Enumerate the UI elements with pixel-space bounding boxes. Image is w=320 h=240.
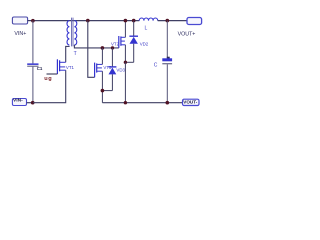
wire bottom-left rail to VT1 source (33, 70, 66, 103)
wire top-left to transformer (33, 20, 140, 22)
port VIN- (12, 99, 31, 106)
diode VD3 (108, 48, 116, 91)
wire inductor to VOUT+ (158, 20, 187, 22)
capacitor C2 polarity mark (167, 57, 170, 60)
svg-text:T: T (74, 51, 77, 57)
capacitor C1 (27, 63, 38, 102)
port VOUT+ (187, 18, 202, 25)
wire bottom-right rail (102, 102, 182, 104)
wire VD2 anode to VT2 source (125, 61, 133, 63)
svg-text:ug: ug (44, 76, 52, 82)
junction dot (166, 101, 170, 105)
mosfet VT2 (119, 21, 126, 63)
wire VT1 gate lead (47, 73, 58, 75)
diode VD2 (129, 21, 138, 63)
inductor L (139, 18, 157, 21)
transformer T primary winding (67, 21, 69, 45)
wire primary bottom to VT1 drain (66, 46, 70, 62)
wire VT3 gate drive (88, 21, 95, 78)
svg-text:VT2: VT2 (111, 42, 120, 47)
mosfet VT1 (57, 59, 65, 74)
wire secondary bottom to VT2 gate (74, 45, 118, 48)
svg-text:C1: C1 (37, 66, 43, 71)
svg-text:VT1: VT1 (66, 65, 75, 70)
port VOUT- (183, 99, 200, 105)
port VIN+ (12, 17, 32, 24)
junction dot (31, 101, 35, 105)
mosfet VT3 (95, 48, 103, 103)
transformer T secondary winding (74, 21, 76, 45)
junction dot (124, 19, 128, 23)
svg-text:C: C (154, 62, 158, 68)
wire down to C2 (166, 21, 168, 59)
svg-text:VOUT+: VOUT+ (178, 32, 196, 38)
svg-text:VOUT-: VOUT- (183, 99, 198, 104)
svg-text:VIN-: VIN- (13, 97, 23, 103)
junction dot (101, 46, 105, 50)
junction dot node A (86, 19, 90, 23)
junction dot (124, 61, 127, 64)
capacitor C2 (162, 58, 172, 102)
junction dot (132, 19, 136, 23)
wire down to C1 (32, 21, 34, 64)
wire VD3 anode to VT3 source (102, 90, 112, 92)
junction dot (124, 101, 127, 104)
junction dot (111, 46, 114, 49)
transformer core (72, 18, 74, 47)
wire VT2 source down to rail (124, 62, 126, 102)
junction dot (31, 19, 35, 23)
junction dot (166, 19, 170, 23)
svg-text:L: L (145, 25, 148, 31)
svg-text:VD2: VD2 (140, 42, 149, 47)
junction dot (101, 89, 105, 93)
svg-text:VIN+: VIN+ (14, 31, 26, 37)
svg-text:VD3: VD3 (116, 67, 125, 72)
